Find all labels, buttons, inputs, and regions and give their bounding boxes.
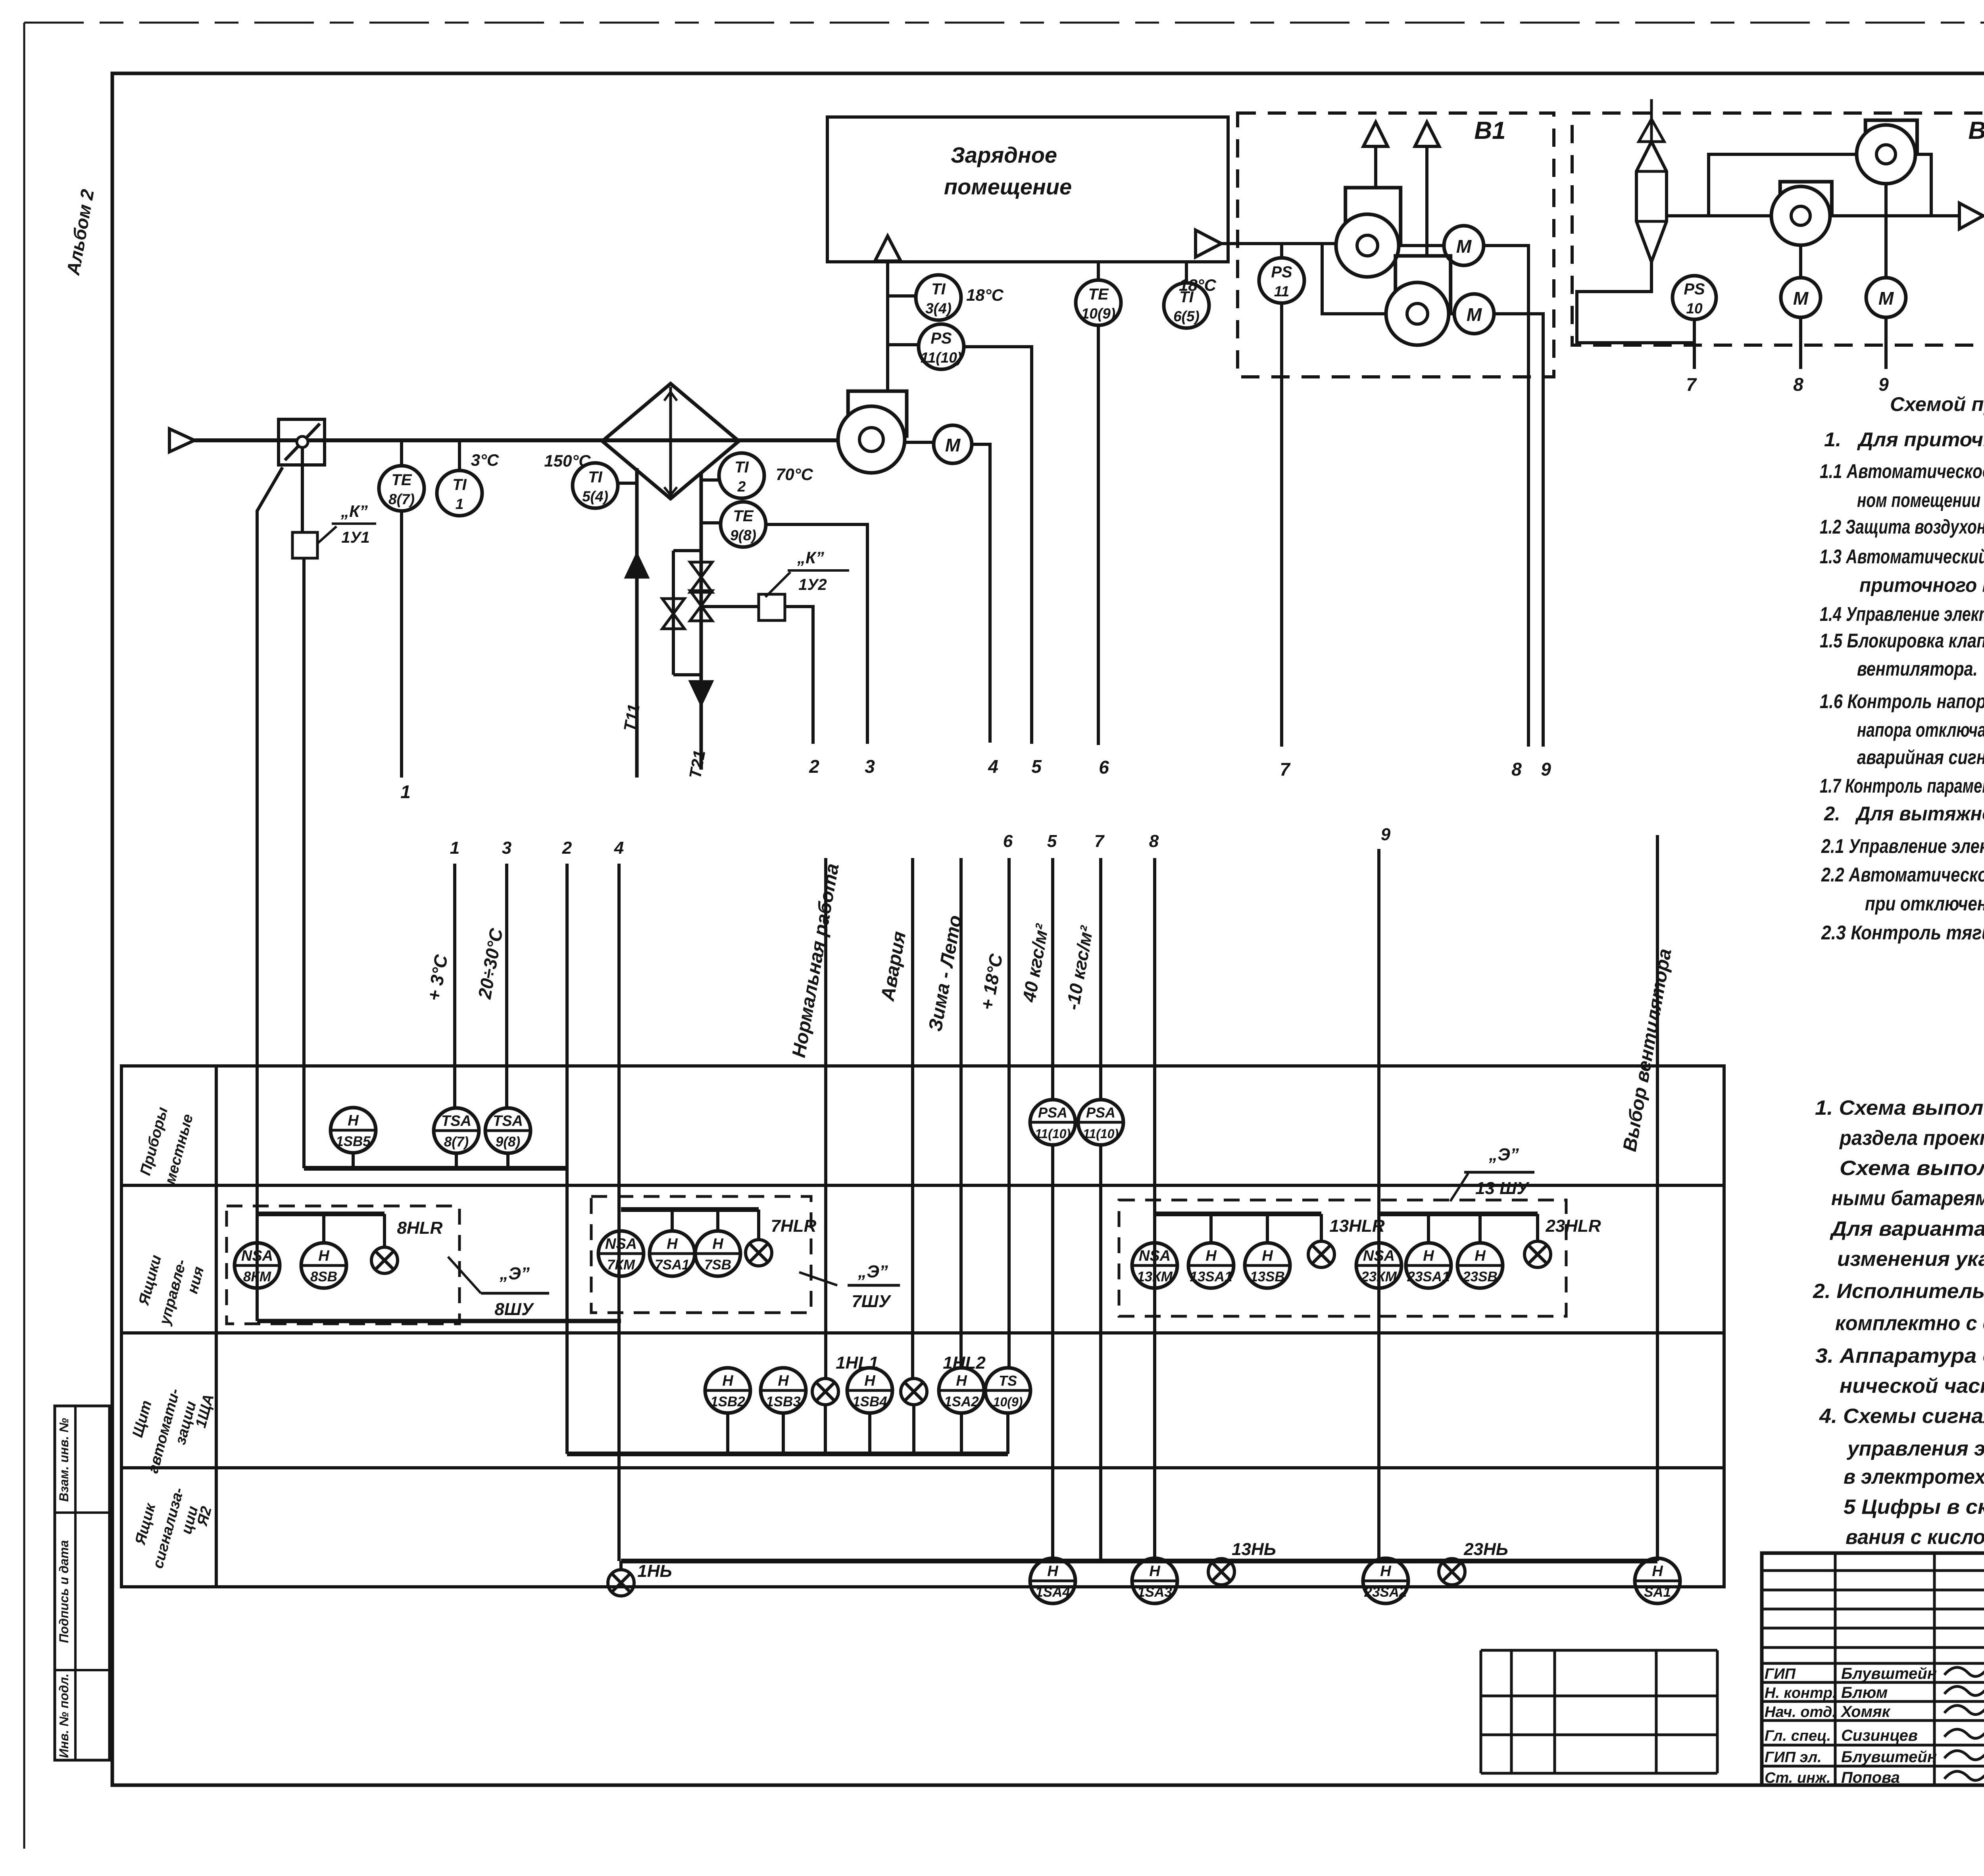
svg-text:13SА1: 13SА1 bbox=[1190, 1269, 1232, 1285]
svg-text:Попова: Попова bbox=[1841, 1769, 1900, 1786]
svg-text:Н: Н bbox=[348, 1112, 359, 1129]
svg-text:7КМ: 7КМ bbox=[607, 1257, 635, 1273]
svg-text:РSА: РSА bbox=[1086, 1104, 1115, 1121]
svg-text:6: 6 bbox=[1003, 831, 1013, 851]
svg-text:1SА3: 1SА3 bbox=[1137, 1584, 1172, 1600]
svg-text:9: 9 bbox=[1541, 759, 1551, 780]
svg-text:NSА: NSА bbox=[605, 1236, 637, 1252]
svg-text:2.2 Автоматическое включен: 2.2 Автоматическое включение резервного … bbox=[1821, 864, 1984, 886]
svg-text:Блюм: Блюм bbox=[1841, 1684, 1888, 1701]
svg-text:Хомяк: Хомяк bbox=[1840, 1703, 1891, 1720]
svg-text:ТЕ: ТЕ bbox=[391, 471, 412, 489]
svg-text:6(5): 6(5) bbox=[1173, 308, 1200, 325]
svg-text:7HLR: 7HLR bbox=[771, 1216, 817, 1236]
svg-text:Н: Н bbox=[1205, 1248, 1217, 1264]
svg-text:аварийная сигнализация): аварийная сигнализация) bbox=[1857, 746, 1984, 768]
svg-text:7SВ: 7SВ bbox=[704, 1257, 731, 1273]
svg-text:ГИП эл.: ГИП эл. bbox=[1765, 1749, 1822, 1766]
svg-text:1: 1 bbox=[400, 782, 411, 802]
svg-text:Подпись и дата: Подпись и дата bbox=[57, 1540, 71, 1643]
svg-text:7: 7 bbox=[1280, 759, 1291, 780]
svg-text:1У2: 1У2 bbox=[798, 576, 827, 593]
svg-text:нической части проекта: нической части проекта bbox=[1840, 1375, 1984, 1398]
svg-text:„Э”: „Э” bbox=[499, 1264, 530, 1283]
svg-text:Н: Н bbox=[722, 1373, 734, 1389]
svg-text:приточного вентилятора.: приточного вентилятора. bbox=[1859, 574, 1984, 596]
svg-text:8(7): 8(7) bbox=[444, 1134, 469, 1150]
svg-text:В1: В1 bbox=[1474, 117, 1505, 144]
svg-text:изменения указаны в узле: изменения указаны в узле „А”. bbox=[1837, 1248, 1984, 1271]
svg-text:6: 6 bbox=[1099, 757, 1109, 778]
svg-text:7SА1: 7SА1 bbox=[655, 1257, 690, 1273]
svg-text:2: 2 bbox=[737, 478, 746, 495]
svg-text:3: 3 bbox=[502, 838, 511, 858]
svg-text:М: М bbox=[1793, 288, 1809, 309]
svg-text:1SА2: 1SА2 bbox=[944, 1394, 979, 1409]
svg-text:РS: РS bbox=[930, 330, 952, 347]
svg-text:ГИП: ГИП bbox=[1765, 1666, 1796, 1682]
svg-text:8: 8 bbox=[1793, 374, 1803, 395]
svg-text:1: 1 bbox=[450, 838, 459, 858]
svg-text:М: М bbox=[1878, 288, 1894, 309]
svg-text:ТI: ТI bbox=[734, 459, 749, 476]
svg-text:ТS: ТS bbox=[999, 1373, 1017, 1389]
svg-text:при отключении основного;: при отключении основного; bbox=[1865, 893, 1984, 915]
svg-text:Н. контр.: Н. контр. bbox=[1765, 1685, 1837, 1701]
svg-text:2: 2 bbox=[809, 756, 819, 777]
svg-text:5 Цифры в скобках даны: 5 Цифры в скобках даны для пункта технич… bbox=[1844, 1496, 1984, 1519]
svg-text:10: 10 bbox=[1686, 300, 1703, 317]
svg-text:РSА: РSА bbox=[1038, 1104, 1067, 1121]
svg-text:5: 5 bbox=[1031, 756, 1042, 777]
svg-text:8(7): 8(7) bbox=[388, 491, 415, 507]
svg-text:1.7 Контроль параметров: 1.7 Контроль параметров воздуха и теплон… bbox=[1820, 775, 1984, 797]
svg-text:Н: Н bbox=[667, 1236, 678, 1252]
svg-text:8SВ: 8SВ bbox=[310, 1269, 337, 1285]
svg-text:Блувштейн: Блувштейн bbox=[1841, 1665, 1937, 1682]
svg-text:7: 7 bbox=[1094, 831, 1105, 851]
svg-text:9(8): 9(8) bbox=[730, 527, 756, 543]
svg-text:ТЕ: ТЕ bbox=[733, 507, 754, 525]
svg-text:8: 8 bbox=[1149, 831, 1159, 851]
svg-text:1.1 Автоматическое регулиро: 1.1 Автоматическое регулирование темпера… bbox=[1820, 460, 1984, 482]
svg-text:ТЕ: ТЕ bbox=[1088, 286, 1109, 303]
svg-text:11(10): 11(10) bbox=[921, 349, 962, 366]
svg-text:23HLR: 23HLR bbox=[1545, 1216, 1601, 1236]
svg-text:1SА4: 1SА4 bbox=[1035, 1584, 1070, 1600]
svg-text:„К”: „К” bbox=[340, 502, 368, 520]
svg-text:1: 1 bbox=[456, 496, 464, 512]
svg-text:ТI: ТI bbox=[588, 469, 602, 486]
svg-text:23НЬ: 23НЬ bbox=[1463, 1540, 1508, 1559]
svg-text:РS: РS bbox=[1271, 263, 1292, 281]
svg-text:„К”: „К” bbox=[797, 548, 824, 567]
svg-text:вания с кислотными аккум: вания с кислотными аккумуляторными батар… bbox=[1846, 1526, 1984, 1549]
svg-text:Сизинцев: Сизинцев bbox=[1841, 1727, 1918, 1744]
svg-text:вентилятора.: вентилятора. bbox=[1857, 658, 1978, 680]
svg-text:8: 8 bbox=[1511, 759, 1522, 780]
svg-text:13НЬ: 13НЬ bbox=[1232, 1540, 1276, 1559]
svg-text:70°С: 70°С bbox=[776, 465, 813, 484]
svg-text:10(9): 10(9) bbox=[1081, 305, 1115, 322]
svg-text:2. Исполнительные механизмы: 2. Исполнительные механизмы с индексом „… bbox=[1813, 1280, 1984, 1303]
svg-text:ТSА: ТSА bbox=[441, 1113, 471, 1129]
svg-text:М: М bbox=[945, 435, 961, 455]
svg-text:3°С: 3°С bbox=[471, 451, 499, 469]
svg-text:2.3 Контроль тяги в вы: 2.3 Контроль тяги в вытяжном воздуховоде bbox=[1821, 922, 1984, 944]
svg-text:1SВ3: 1SВ3 bbox=[766, 1394, 801, 1409]
svg-text:1SВ5: 1SВ5 bbox=[336, 1134, 371, 1149]
svg-text:8ШУ: 8ШУ bbox=[494, 1300, 534, 1319]
svg-text:Н: Н bbox=[318, 1248, 330, 1264]
svg-text:13SВ: 13SВ bbox=[1250, 1269, 1285, 1285]
svg-text:Н: Н bbox=[1149, 1563, 1161, 1580]
svg-text:ными батареями.: ными батареями. bbox=[1831, 1187, 1984, 1210]
svg-text:Взам. инв. №: Взам. инв. № bbox=[57, 1418, 71, 1502]
svg-text:Инв. № подл.: Инв. № подл. bbox=[57, 1674, 71, 1758]
svg-text:1.3 Автоматический прогрев: 1.3 Автоматический прогрев воздухонагрев… bbox=[1820, 545, 1984, 568]
svg-text:5(4): 5(4) bbox=[582, 488, 608, 505]
svg-text:Н: Н bbox=[1652, 1563, 1663, 1580]
svg-text:23SА1: 23SА1 bbox=[1407, 1269, 1450, 1285]
svg-text:В1: В1 bbox=[1968, 117, 1984, 144]
svg-text:Н: Н bbox=[712, 1236, 724, 1252]
svg-text:Схемой предусматривается:: Схемой предусматривается: bbox=[1890, 393, 1984, 415]
svg-text:23КМ: 23КМ bbox=[1361, 1269, 1397, 1285]
svg-text:Н: Н bbox=[1047, 1563, 1059, 1580]
svg-text:23SВ: 23SВ bbox=[1462, 1269, 1498, 1285]
svg-text:1.4 Управление электродвиг: 1.4 Управление электродвигателем приточн… bbox=[1820, 603, 1984, 625]
svg-text:Н: Н bbox=[864, 1373, 876, 1389]
svg-text:23SА2: 23SА2 bbox=[1364, 1584, 1407, 1600]
svg-text:9: 9 bbox=[1878, 374, 1889, 395]
svg-text:Нач. отд.: Нач. отд. bbox=[1765, 1704, 1836, 1720]
svg-text:3: 3 bbox=[865, 756, 875, 777]
svg-text:Н: Н bbox=[956, 1373, 967, 1389]
svg-text:Н: Н bbox=[1475, 1248, 1486, 1264]
svg-text:3. Аппаратура с индексом: 3. Аппаратура с индексом „Э” заказываетс… bbox=[1815, 1344, 1984, 1367]
svg-text:комплектно с сантехнически: комплектно с сантехническим оборудование… bbox=[1835, 1312, 1984, 1335]
svg-text:1. Схема выполнена на о: 1. Схема выполнена на основании чертежей… bbox=[1815, 1096, 1984, 1119]
svg-text:Н: Н bbox=[1380, 1563, 1392, 1580]
svg-text:4: 4 bbox=[614, 838, 624, 858]
svg-text:13HLR: 13HLR bbox=[1329, 1216, 1385, 1236]
svg-text:Блувштейн: Блувштейн bbox=[1841, 1748, 1937, 1766]
svg-text:Ст. инж.: Ст. инж. bbox=[1765, 1770, 1831, 1786]
svg-text:Зарядное: Зарядное bbox=[951, 142, 1057, 167]
svg-text:М: М bbox=[1456, 236, 1472, 257]
svg-text:Н: Н bbox=[1423, 1248, 1434, 1264]
svg-text:NSА: NSА bbox=[1363, 1248, 1395, 1264]
svg-text:1.6 Контроль напора в: 1.6 Контроль напора в приточном воздухов… bbox=[1820, 690, 1984, 712]
svg-text:1НЬ: 1НЬ bbox=[637, 1561, 672, 1581]
svg-text:13 ШУ: 13 ШУ bbox=[1475, 1179, 1530, 1198]
svg-text:8КМ: 8КМ bbox=[243, 1269, 271, 1285]
svg-text:раздела проекта.: раздела проекта. bbox=[1839, 1127, 1984, 1150]
svg-text:напора отключаются зарядны: напора отключаются зарядные устройства и… bbox=[1857, 719, 1984, 741]
svg-text:18°С: 18°С bbox=[966, 286, 1004, 304]
svg-text:ТI: ТI bbox=[931, 280, 946, 298]
svg-text:5: 5 bbox=[1047, 831, 1057, 851]
svg-text:11(10): 11(10) bbox=[1083, 1127, 1119, 1141]
svg-text:9(8): 9(8) bbox=[496, 1134, 520, 1150]
svg-text:1. Для приточной вентсис: 1. Для приточной вентсистемы П1: bbox=[1824, 428, 1984, 451]
svg-text:2. Для вытяжной вентсист: 2. Для вытяжной вентсистемы В1: bbox=[1824, 803, 1984, 825]
svg-text:Н: Н bbox=[1262, 1248, 1273, 1264]
svg-text:Схема выполнена для пунк: Схема выполнена для пункта с щелочными а… bbox=[1840, 1157, 1984, 1180]
svg-text:4. Схемы сигнализации, б: 4. Схемы сигнализации, блокировки зарядн… bbox=[1819, 1405, 1984, 1428]
svg-text:М: М bbox=[1467, 304, 1482, 325]
svg-text:Для варианта с кислотными: Для варианта с кислотными аккумуляторным… bbox=[1830, 1217, 1984, 1240]
svg-text:10(9): 10(9) bbox=[993, 1395, 1023, 1409]
svg-text:в электротехнической части: в электротехнической части проекта. bbox=[1844, 1465, 1984, 1488]
svg-text:Н: Н bbox=[778, 1373, 789, 1389]
svg-text:РS: РS bbox=[1684, 280, 1705, 298]
svg-text:7ШУ: 7ШУ bbox=[852, 1292, 892, 1311]
svg-text:„Э”: „Э” bbox=[857, 1262, 888, 1281]
svg-text:1У1: 1У1 bbox=[341, 529, 370, 546]
svg-text:7: 7 bbox=[1686, 374, 1697, 395]
svg-text:помещение: помещение bbox=[944, 174, 1072, 199]
svg-text:ТI: ТI bbox=[452, 476, 467, 493]
svg-text:2: 2 bbox=[562, 838, 572, 858]
svg-text:1SВ2: 1SВ2 bbox=[710, 1394, 745, 1409]
svg-text:11(10): 11(10) bbox=[1035, 1127, 1071, 1141]
svg-text:9: 9 bbox=[1381, 825, 1391, 844]
svg-text:4: 4 bbox=[988, 756, 998, 777]
svg-text:NSА: NSА bbox=[1139, 1248, 1171, 1264]
svg-text:8HLR: 8HLR bbox=[397, 1218, 443, 1238]
svg-text:SА1: SА1 bbox=[1644, 1584, 1671, 1600]
svg-text:18°С: 18°С bbox=[1179, 276, 1217, 294]
svg-text:„Э”: „Э” bbox=[1488, 1145, 1519, 1164]
svg-text:1SВ4: 1SВ4 bbox=[852, 1394, 887, 1409]
svg-text:NSА: NSА bbox=[241, 1248, 273, 1264]
svg-text:13КМ: 13КМ bbox=[1137, 1269, 1173, 1285]
svg-text:ном помещении изменением: ном помещении изменением теплоотдачи воз… bbox=[1857, 489, 1984, 511]
svg-text:управления электродвигателям: управления электродвигателями вентсистем… bbox=[1846, 1437, 1984, 1460]
svg-text:Гл. спец.: Гл. спец. bbox=[1765, 1728, 1831, 1744]
svg-text:11: 11 bbox=[1274, 283, 1289, 300]
svg-text:3(4): 3(4) bbox=[925, 300, 952, 317]
svg-text:1.2 Защита воздухонагревате: 1.2 Защита воздухонагревателя от замерза… bbox=[1820, 516, 1984, 538]
svg-text:ТSА: ТSА bbox=[493, 1113, 523, 1129]
svg-text:2.1 Управление электродвиг: 2.1 Управление электродвигателями вентил… bbox=[1821, 835, 1984, 857]
svg-text:1.5 Блокировка клапана н: 1.5 Блокировка клапана наружного воздуха… bbox=[1820, 630, 1984, 652]
